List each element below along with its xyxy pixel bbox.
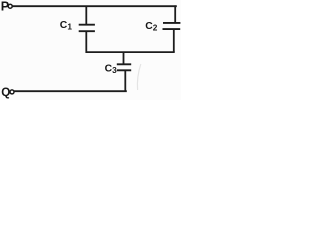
svg-text:C1: C1 — [60, 20, 73, 31]
svg-text:C3: C3 — [105, 64, 118, 75]
terminal Q circle — [10, 90, 14, 94]
capacitor C1 — [79, 6, 95, 53]
svg-text:Q: Q — [1, 86, 10, 99]
terminal P circle — [8, 4, 12, 8]
svg-text:C2: C2 — [145, 21, 158, 32]
capacitor C2 — [163, 23, 181, 52]
wire middle rail joining C1 and C2 bottoms — [86, 51, 175, 53]
capacitor C3 — [117, 52, 131, 91]
wire right vertical drop to C2 top plate — [174, 5, 176, 23]
svg-text:P: P — [1, 0, 9, 13]
wire bottom rail from terminal Q to C3 bottom lead — [14, 90, 127, 92]
wire top rail from terminal P to top-right corner — [13, 5, 177, 7]
